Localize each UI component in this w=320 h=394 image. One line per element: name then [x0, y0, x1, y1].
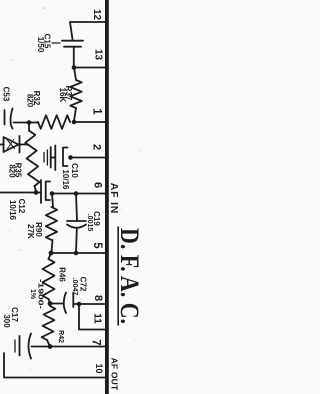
capacitor C53: [4, 110, 6, 125]
wire pin 11: [79, 304, 105, 330]
node R46 / R42 / pin8: [48, 301, 53, 306]
capacitor C19 .0015: [76, 194, 77, 221]
resistor R90 27K: [52, 194, 53, 208]
svg-text:1%: 1%: [29, 289, 36, 300]
ground: [14, 340, 16, 352]
svg-text:10/16: 10/16: [61, 169, 70, 190]
capacitor C72 .0047: [64, 293, 66, 314]
node C53 / R32 / R35: [27, 120, 32, 125]
svg-text:C12: C12: [17, 199, 26, 214]
svg-text:C72: C72: [79, 277, 88, 292]
wire pin 12: [70, 21, 105, 23]
svg-text:1: 1: [91, 108, 103, 115]
capacitor C10 10/16: [51, 157, 55, 159]
resistor R32 820: [29, 122, 38, 124]
svg-text:820: 820: [26, 94, 35, 108]
capacitor C12 10/16: [40, 180, 42, 203]
wire pin 8: [50, 303, 63, 305]
node C19 / pin6 wire: [74, 191, 79, 196]
svg-text:10: 10: [94, 363, 104, 373]
node pin1 / R32 / R37: [72, 120, 77, 125]
svg-text:8: 8: [92, 295, 104, 301]
node C12 / pin6 wire: [50, 191, 55, 196]
wire pin 6 (AF IN): [0, 192, 41, 194]
svg-text:13: 13: [93, 49, 104, 61]
svg-text:11: 11: [92, 313, 103, 324]
node pin13 / R37 top: [72, 65, 77, 70]
svg-text:2: 2: [91, 144, 103, 150]
node C19 / pin5 wire: [74, 251, 79, 256]
resistor R35 820: [28, 123, 30, 132]
svg-text:16K: 16K: [58, 88, 67, 103]
resistor R46 1900 1%: [49, 253, 52, 259]
svg-text:D. F. A. C.: D. F. A. C.: [115, 228, 144, 324]
capacitor C15: [70, 22, 73, 40]
svg-text:7: 7: [90, 339, 102, 345]
svg-text:10/16: 10/16: [8, 200, 17, 221]
wire pin 10: [4, 353, 105, 378]
ground: [43, 153, 45, 163]
svg-text:.0047: .0047: [71, 278, 78, 296]
svg-text:R46: R46: [58, 267, 67, 282]
svg-text:6: 6: [92, 182, 104, 188]
svg-text:C53: C53: [2, 87, 11, 102]
svg-text:.0015: .0015: [86, 214, 93, 232]
svg-text:C10: C10: [70, 163, 79, 178]
capacitor C17 300: [29, 334, 32, 359]
resistor R42: [42, 306, 56, 340]
svg-text:AF OUT: AF OUT: [110, 358, 120, 391]
svg-text:-1900-: -1900-: [37, 279, 44, 310]
svg-text:27K: 27K: [26, 224, 35, 239]
wire pin 13: [74, 67, 105, 69]
wire pin 1: [74, 121, 105, 123]
wire pin 2: [71, 157, 106, 159]
bus / board edge: [105, 0, 109, 394]
svg-text:5: 5: [91, 242, 103, 249]
svg-text:300: 300: [2, 314, 11, 328]
node R90 / R46: [49, 251, 54, 256]
wire pin 5: [50, 252, 105, 254]
node pin8 / pin11 branch: [77, 302, 82, 307]
node R42 / pin7: [48, 344, 53, 349]
svg-text:R42: R42: [57, 330, 64, 343]
resistor R37 16K: [74, 68, 76, 81]
diode CR: [0, 144, 4, 146]
svg-text:1/50: 1/50: [36, 37, 45, 53]
svg-text:12: 12: [91, 9, 102, 21]
svg-text:820: 820: [8, 164, 17, 178]
node C10 / pin2: [68, 155, 73, 160]
svg-text:AF IN: AF IN: [108, 183, 120, 214]
node R35 / pin6 wire: [34, 190, 39, 195]
wire pin 7: [50, 346, 105, 348]
